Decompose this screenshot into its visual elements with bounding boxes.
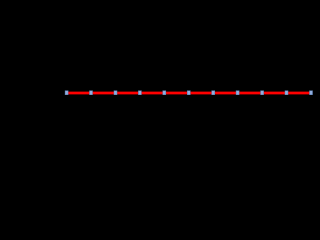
square markers xyxy=(65,91,312,95)
red data line xyxy=(66,92,310,95)
